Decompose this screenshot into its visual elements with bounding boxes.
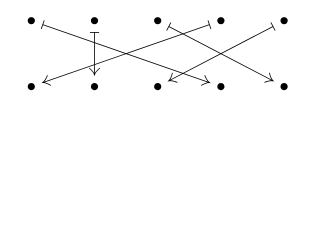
arrow 4 to 1 (mapsto): tail bar [208,20,211,29]
arrow 2 to 2 (mapsto): arrowhead [89,68,100,75]
arrow 2 to 2 (mapsto): shaft [94,32,96,75]
arrow 1 to 4 (mapsto): tail bar [41,20,44,29]
arrow 1 to 4 (mapsto): arrowhead [201,75,209,85]
arrow 3 to 5 (mapsto): shaft [169,26,273,80]
node top 5 (bullet) [281,18,287,24]
arrow 4 to 1 (mapsto): arrowhead [43,75,51,85]
node bottom 1 (bullet) [28,83,34,89]
arrow 5 to 3 (mapsto): tail bar [271,22,275,30]
node bottom 2 (bullet) [91,83,97,89]
arrow 4 to 1 (mapsto): shaft [43,25,210,83]
permutation diagram: two rows of bullet nodes, mapsto arrows (1 4)(3 5), 2 fixed [0,0,320,109]
node top 2 (bullet) [91,18,97,24]
node top 4 (bullet) [218,18,224,24]
arrow 5 to 3 (mapsto): arrowhead [169,73,178,83]
node top 1 (bullet) [28,18,34,24]
node top 3 (bullet) [155,18,161,24]
node bottom 3 (bullet) [155,83,161,89]
arrow 3 to 5 (mapsto): arrowhead [264,73,273,83]
arrow 1 to 4 (mapsto): shaft [43,25,210,83]
node bottom 5 (bullet) [281,83,287,89]
node bottom 4 (bullet) [218,83,224,89]
arrow 3 to 5 (mapsto): tail bar [167,22,171,30]
arrow 2 to 2 (mapsto): tail bar [90,31,99,33]
arrow 5 to 3 (mapsto): shaft [169,26,273,80]
